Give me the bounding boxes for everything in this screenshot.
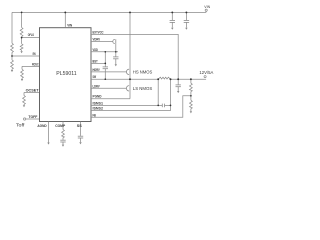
wire output after inductor bbox=[171, 78, 207, 80]
wire VOUT sense drop bbox=[170, 79, 172, 110]
node VIN terminal bbox=[205, 9, 207, 11]
svg-text:HDRV: HDRV bbox=[93, 67, 100, 72]
capacitor C-IN1 bbox=[171, 12, 173, 20]
resistor R-FB-top bbox=[190, 79, 192, 83]
ground arrow C-VDD bbox=[115, 64, 117, 66]
svg-text:OFLO: OFLO bbox=[28, 32, 34, 37]
svg-text:SW: SW bbox=[93, 74, 97, 79]
ground arrow AGND bbox=[47, 143, 49, 145]
wire TOFF pin bbox=[26, 118, 40, 120]
svg-text:EXTVCC: EXTVCC bbox=[93, 29, 104, 34]
capacitor C-VDRV straight plate bbox=[115, 39, 117, 43]
wire left divider A top bbox=[11, 12, 13, 43]
capacitor C-VDRV curved plate bbox=[113, 39, 115, 43]
node junction dot boot-SW bbox=[104, 78, 106, 80]
ground arrow C-IN1 bbox=[171, 28, 173, 30]
node junction dot BST tee bbox=[104, 63, 106, 65]
capacitor C-IN2 bbox=[185, 12, 187, 20]
transistor Q1 gate plate bbox=[126, 69, 129, 74]
node junction dot rail-HS drain bbox=[129, 11, 131, 13]
node junction dot rail-CIN2 bbox=[185, 11, 187, 13]
ground arrow COMP bbox=[62, 145, 64, 147]
svg-text:VDD: VDD bbox=[93, 47, 99, 52]
wire EN pin bbox=[12, 55, 40, 57]
wire to OFLO node bbox=[21, 37, 23, 44]
wire VDRV cap to VDD bbox=[115, 44, 117, 52]
wire SW output line bbox=[91, 78, 158, 80]
wire BST bbox=[91, 62, 105, 64]
resistor R-EN-top bbox=[11, 43, 14, 52]
ground arrow C-OUT bbox=[177, 91, 179, 93]
transistor Q1 channel HS NMOS bbox=[129, 12, 131, 79]
node junction dot EN bbox=[11, 55, 13, 57]
node junction dot VOUT-EXTVCC bbox=[177, 78, 179, 80]
svg-text:BST: BST bbox=[93, 58, 99, 63]
svg-text:PL59011: PL59011 bbox=[56, 71, 76, 77]
wire VDRV bbox=[91, 41, 113, 43]
svg-text:PGND: PGND bbox=[93, 94, 102, 99]
wire ISNS1 cap to node bbox=[165, 104, 171, 106]
resistor R-OSC bbox=[21, 66, 23, 69]
wire EXTVCC bbox=[91, 34, 178, 79]
svg-text:LS NMOS: LS NMOS bbox=[133, 86, 153, 91]
svg-text:VIN: VIN bbox=[204, 4, 210, 9]
wire FB bbox=[91, 96, 191, 118]
op-amp U1 PL59011 box bbox=[40, 28, 92, 122]
capacitor C-BST bootstrap bbox=[103, 66, 108, 68]
svg-text:TOFF: TOFF bbox=[28, 114, 38, 119]
node junction dot VDD-BST vert bbox=[104, 51, 106, 53]
svg-text:AGND: AGND bbox=[37, 123, 46, 128]
ground arrow ROSC bbox=[21, 77, 23, 80]
ground arrow SS bbox=[79, 142, 81, 144]
wire VIN rail bbox=[12, 11, 206, 13]
svg-text:HS NMOS: HS NMOS bbox=[133, 69, 153, 74]
wire VDD to BST bbox=[104, 52, 106, 67]
resistor R-OFLO-top bbox=[20, 28, 23, 37]
resistor R-FB-bot bbox=[190, 96, 192, 101]
node junction dot rail-CIN1 bbox=[171, 11, 173, 13]
svg-text:12V/5A: 12V/5A bbox=[199, 70, 213, 75]
wire HDRV bbox=[91, 71, 126, 73]
wire SW sense drop bbox=[157, 79, 159, 105]
transistor Q2 gate plate bbox=[126, 86, 129, 91]
svg-text:ISNS1: ISNS1 bbox=[93, 100, 104, 105]
wire VIN pin of IC bbox=[64, 12, 66, 27]
ground arrow R-FB bbox=[190, 111, 192, 113]
resistor R-EN-bot bbox=[11, 60, 14, 69]
wire ROSC pin bbox=[22, 65, 40, 67]
wire SS drop bbox=[80, 122, 82, 136]
node junction dot VOUT-sense bbox=[170, 78, 172, 80]
wire OFLO divider top bbox=[21, 12, 23, 27]
wire OCSET pin bbox=[24, 92, 40, 94]
node junction dot rail-VINpin bbox=[64, 11, 66, 13]
capacitor C-VDD bbox=[115, 52, 117, 57]
node junction dot SW-sense bbox=[157, 78, 159, 80]
node junction dot VOUT-FBdiv bbox=[190, 78, 192, 80]
ground arrow C-IN2 bbox=[185, 28, 187, 30]
node TOFF terminal bbox=[23, 118, 25, 120]
node junction dot SW-MOSFET bbox=[129, 78, 131, 80]
wire PGND bbox=[91, 98, 130, 100]
inductor L1 bbox=[158, 77, 170, 79]
node junction dot rail-divider bbox=[21, 12, 23, 14]
node junction dot FB node bbox=[190, 95, 192, 97]
resistor R-COMP bbox=[62, 130, 65, 138]
ground arrow EN divider bbox=[11, 68, 13, 71]
resistor R-OCSET bbox=[23, 93, 25, 96]
svg-text:EN: EN bbox=[33, 51, 36, 56]
resistor R-OFLO-bot bbox=[20, 44, 23, 50]
wire OFLO pin bbox=[22, 37, 40, 39]
svg-text:ISNS2: ISNS2 bbox=[93, 106, 104, 111]
wire ISNS2 bbox=[91, 110, 171, 112]
wire AGND drop bbox=[48, 122, 50, 143]
wire LDRV bbox=[91, 87, 126, 89]
svg-text:VDRV: VDRV bbox=[93, 37, 101, 42]
wire ISNS1 bbox=[91, 104, 162, 106]
svg-text:VIN: VIN bbox=[67, 23, 72, 28]
wire VIN terminal stub bbox=[205, 11, 207, 12]
node junction dot ISNS1-sense bbox=[157, 105, 159, 107]
svg-text:OCSET: OCSET bbox=[26, 87, 40, 92]
node junction dot ISNS1-node bbox=[170, 105, 172, 107]
node junction dot VDD-CVDRV bbox=[115, 51, 117, 53]
wire to EN node bbox=[11, 52, 13, 60]
capacitor C-COMP bbox=[60, 139, 65, 141]
node junction dot OFLO bbox=[21, 37, 23, 39]
wire COMP drop bbox=[62, 122, 64, 130]
wire VDD bbox=[91, 51, 118, 53]
node VOUT terminal bbox=[204, 76, 206, 78]
ground arrow OFLO divider bbox=[21, 50, 23, 51]
transistor Q2 channel LS NMOS bbox=[129, 79, 131, 99]
ground arrow OCSET bbox=[23, 103, 25, 106]
capacitor C-ISNS1 plates bbox=[161, 104, 163, 108]
svg-text:SS: SS bbox=[77, 123, 82, 128]
capacitor C-OUT bbox=[177, 79, 179, 84]
svg-text:ROSC: ROSC bbox=[32, 61, 39, 66]
capacitor C-SS bbox=[78, 135, 83, 137]
svg-text:FB: FB bbox=[93, 112, 97, 117]
svg-text:Toff: Toff bbox=[16, 122, 26, 127]
svg-text:LDRV: LDRV bbox=[93, 83, 100, 88]
svg-text:COMP: COMP bbox=[55, 123, 65, 128]
